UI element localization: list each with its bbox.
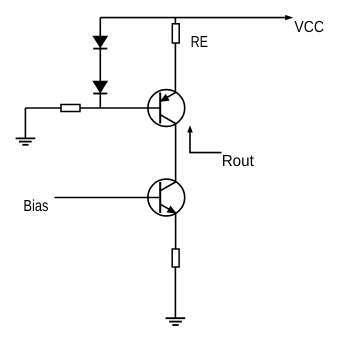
wire: left base wire bbox=[25, 107, 160, 109]
diode D1 bbox=[93, 36, 107, 48]
wire: RE to Q1 emitter bbox=[174, 43, 176, 93]
svg-text:Rout: Rout bbox=[222, 153, 255, 170]
transistor Q2 (NPN) bbox=[148, 179, 185, 216]
wire: RE top stub bbox=[174, 18, 176, 24]
wire: left ground drop bbox=[24, 108, 26, 138]
ground (bottom) bbox=[166, 318, 186, 325]
wire: Q1 collector to Q2 collector bbox=[175, 124, 177, 183]
resistor RE bbox=[172, 24, 179, 43]
svg-text:RE: RE bbox=[191, 34, 208, 51]
Rout annotation arrow bbox=[187, 125, 221, 152]
transistor Q1 (PNP) bbox=[148, 90, 185, 127]
diode D2 bbox=[93, 81, 107, 93]
ground (left) bbox=[16, 138, 36, 144]
wire: Q2 emitter to resistor bbox=[175, 213, 177, 249]
wire: diode branch vertical bbox=[99, 18, 101, 108]
resistor R2 (emitter resistor) bbox=[172, 249, 179, 267]
VCC arrowhead bbox=[285, 15, 293, 20]
svg-text:Bias: Bias bbox=[23, 198, 48, 215]
wire: Bias to Q2 base bbox=[55, 197, 161, 199]
svg-text:VCC: VCC bbox=[294, 19, 324, 36]
resistor R1 (base resistor) bbox=[61, 105, 80, 112]
wire: resistor to bottom ground bbox=[174, 267, 176, 318]
wire: VCC top rail bbox=[100, 17, 287, 19]
